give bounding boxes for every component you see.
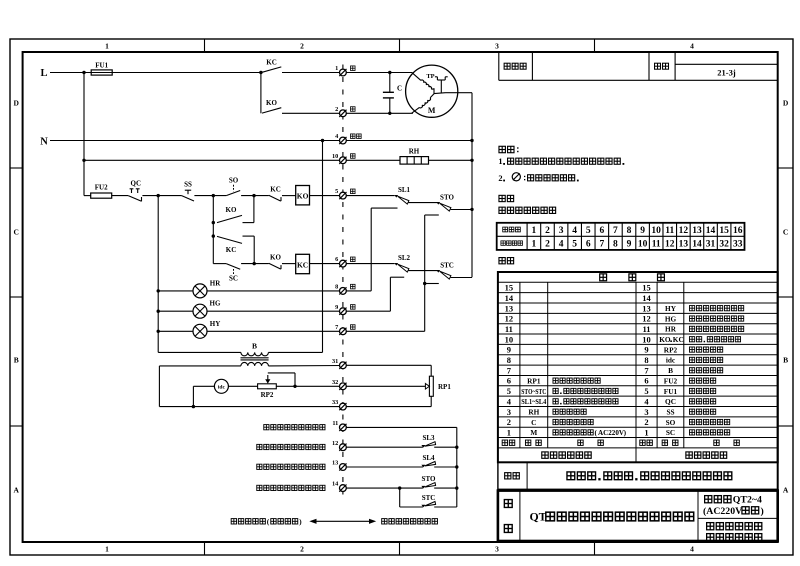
svg-text:4: 4 bbox=[559, 239, 564, 249]
svg-text:9: 9 bbox=[627, 239, 632, 249]
svg-text:33: 33 bbox=[733, 239, 743, 249]
svg-text:QC: QC bbox=[665, 397, 676, 406]
svg-text:9: 9 bbox=[507, 345, 511, 355]
svg-text:10: 10 bbox=[651, 226, 661, 236]
svg-text:14: 14 bbox=[692, 239, 702, 249]
svg-text:SS: SS bbox=[666, 407, 674, 416]
svg-text:SL2: SL2 bbox=[398, 254, 411, 262]
svg-text:AC220V: AC220V bbox=[598, 429, 625, 437]
svg-text:2: 2 bbox=[300, 42, 304, 51]
svg-text:9: 9 bbox=[644, 345, 648, 355]
svg-text:SS: SS bbox=[184, 181, 192, 189]
svg-text:6: 6 bbox=[644, 376, 648, 386]
svg-text:3: 3 bbox=[644, 407, 648, 417]
svg-text:11: 11 bbox=[642, 324, 650, 334]
svg-text:C: C bbox=[531, 418, 536, 427]
svg-text:13: 13 bbox=[679, 239, 689, 249]
svg-text:D: D bbox=[783, 99, 789, 108]
svg-text:13: 13 bbox=[332, 460, 338, 467]
svg-text:STC: STC bbox=[440, 261, 454, 269]
svg-text:12: 12 bbox=[679, 226, 689, 236]
svg-text:A: A bbox=[783, 486, 789, 495]
svg-text:3: 3 bbox=[495, 42, 499, 51]
svg-text:FU1: FU1 bbox=[95, 62, 108, 70]
svg-text:11: 11 bbox=[652, 239, 661, 249]
svg-text:HG: HG bbox=[210, 300, 221, 308]
svg-text:KO: KO bbox=[270, 254, 281, 262]
svg-text:B: B bbox=[252, 342, 257, 351]
svg-text:5: 5 bbox=[644, 386, 648, 396]
svg-text:13: 13 bbox=[505, 303, 514, 313]
svg-text:STO: STO bbox=[422, 475, 436, 483]
svg-text:M: M bbox=[428, 106, 436, 115]
svg-text:2: 2 bbox=[498, 174, 502, 183]
svg-text:KO: KO bbox=[226, 206, 237, 214]
svg-text:L: L bbox=[40, 68, 47, 79]
svg-text:14: 14 bbox=[332, 481, 339, 488]
svg-text:12: 12 bbox=[332, 440, 338, 447]
svg-text:RH: RH bbox=[528, 407, 539, 416]
svg-text:idc: idc bbox=[666, 356, 676, 365]
svg-text:KC: KC bbox=[226, 246, 237, 254]
svg-text:11: 11 bbox=[332, 420, 338, 427]
svg-text:N: N bbox=[40, 137, 48, 148]
svg-text:1: 1 bbox=[498, 157, 502, 166]
svg-text:11: 11 bbox=[505, 324, 513, 334]
svg-text:1: 1 bbox=[105, 545, 109, 554]
svg-text:2: 2 bbox=[300, 545, 304, 554]
svg-text:SO: SO bbox=[229, 177, 239, 185]
svg-text:8: 8 bbox=[613, 239, 618, 249]
svg-text:1: 1 bbox=[532, 239, 537, 249]
svg-text:10: 10 bbox=[642, 334, 651, 344]
svg-text:6: 6 bbox=[507, 376, 511, 386]
svg-text:7: 7 bbox=[507, 365, 512, 375]
svg-text:KC: KC bbox=[266, 59, 277, 67]
svg-text:5: 5 bbox=[572, 239, 577, 249]
svg-text:3: 3 bbox=[559, 226, 564, 236]
svg-text:B: B bbox=[668, 366, 673, 375]
svg-text:KO: KO bbox=[266, 99, 277, 107]
svg-text:1: 1 bbox=[532, 226, 537, 236]
svg-text:RP2: RP2 bbox=[261, 391, 274, 399]
svg-text:KC: KC bbox=[270, 186, 281, 194]
svg-text:QT: QT bbox=[530, 510, 547, 524]
svg-text:33: 33 bbox=[332, 399, 338, 406]
svg-text:10: 10 bbox=[638, 239, 648, 249]
svg-text:7: 7 bbox=[599, 239, 604, 249]
svg-text:4: 4 bbox=[690, 545, 694, 554]
svg-text:32: 32 bbox=[719, 239, 729, 249]
svg-text:SL1~SL4: SL1~SL4 bbox=[521, 397, 546, 406]
svg-text:RH: RH bbox=[409, 148, 420, 156]
svg-text:RP2: RP2 bbox=[664, 345, 678, 354]
svg-text:B: B bbox=[783, 356, 788, 365]
svg-text:KC: KC bbox=[297, 260, 308, 269]
svg-text:SL3: SL3 bbox=[422, 434, 435, 442]
svg-text:31: 31 bbox=[332, 358, 338, 365]
svg-text:14: 14 bbox=[642, 293, 651, 303]
svg-text:FU2: FU2 bbox=[95, 184, 108, 192]
svg-text:15: 15 bbox=[505, 283, 514, 293]
svg-text:31: 31 bbox=[706, 239, 716, 249]
svg-text:4: 4 bbox=[572, 226, 577, 236]
svg-text:M: M bbox=[530, 428, 537, 437]
svg-text:HG: HG bbox=[665, 314, 677, 323]
svg-text:8: 8 bbox=[644, 355, 648, 365]
svg-text:HR: HR bbox=[665, 325, 677, 334]
svg-text:6: 6 bbox=[599, 226, 604, 236]
svg-text:B: B bbox=[14, 356, 19, 365]
svg-text:RP1: RP1 bbox=[438, 383, 451, 391]
svg-text:6: 6 bbox=[335, 256, 338, 263]
svg-text:7: 7 bbox=[613, 226, 618, 236]
svg-text:idc: idc bbox=[218, 385, 226, 391]
svg-text:2: 2 bbox=[545, 226, 550, 236]
svg-text:2: 2 bbox=[335, 106, 338, 113]
svg-text:KO: KO bbox=[297, 192, 309, 201]
svg-text:2: 2 bbox=[644, 417, 648, 427]
svg-text:5: 5 bbox=[586, 226, 591, 236]
svg-text:1: 1 bbox=[644, 427, 648, 437]
svg-text:3: 3 bbox=[507, 407, 511, 417]
svg-text:C: C bbox=[783, 228, 788, 237]
svg-text:4: 4 bbox=[690, 42, 694, 51]
svg-text:RP1: RP1 bbox=[527, 376, 541, 385]
svg-text:1: 1 bbox=[335, 65, 338, 72]
svg-text:8: 8 bbox=[335, 284, 338, 291]
svg-text:32: 32 bbox=[332, 379, 338, 386]
svg-text:D: D bbox=[13, 99, 19, 108]
svg-text:KC: KC bbox=[673, 335, 684, 344]
svg-text:2: 2 bbox=[507, 417, 511, 427]
svg-text:6: 6 bbox=[586, 239, 591, 249]
svg-text:C: C bbox=[13, 228, 18, 237]
svg-text:13: 13 bbox=[642, 303, 651, 313]
svg-text:HY: HY bbox=[210, 320, 221, 328]
svg-text:SL1: SL1 bbox=[398, 186, 411, 194]
svg-text:12: 12 bbox=[665, 239, 675, 249]
svg-text:14: 14 bbox=[505, 293, 514, 303]
svg-text:8: 8 bbox=[507, 355, 511, 365]
svg-text:A: A bbox=[13, 486, 19, 495]
svg-text:SC: SC bbox=[229, 274, 238, 282]
svg-text:(AC220V: (AC220V bbox=[703, 506, 742, 517]
svg-text:14: 14 bbox=[706, 226, 716, 236]
svg-text:15: 15 bbox=[642, 283, 651, 293]
svg-text:QT2~4: QT2~4 bbox=[733, 495, 762, 506]
svg-text:2: 2 bbox=[545, 239, 550, 249]
svg-text:10: 10 bbox=[332, 153, 338, 160]
svg-text:QC: QC bbox=[131, 179, 142, 187]
svg-text:TP: TP bbox=[426, 73, 434, 80]
svg-text:SC: SC bbox=[666, 428, 675, 437]
svg-text:16: 16 bbox=[733, 226, 743, 236]
svg-text:15: 15 bbox=[719, 226, 729, 236]
svg-text:FU2: FU2 bbox=[664, 376, 678, 385]
svg-text:FU1: FU1 bbox=[664, 387, 678, 396]
svg-text:4: 4 bbox=[507, 396, 512, 406]
svg-text:1: 1 bbox=[507, 427, 511, 437]
svg-text:10: 10 bbox=[505, 334, 514, 344]
svg-text:HR: HR bbox=[210, 279, 221, 287]
svg-text:13: 13 bbox=[692, 226, 702, 236]
svg-text:7: 7 bbox=[335, 324, 338, 331]
svg-text:3: 3 bbox=[495, 545, 499, 554]
svg-text:KO: KO bbox=[659, 335, 671, 344]
svg-text:1: 1 bbox=[105, 42, 109, 51]
svg-text:STO~STC: STO~STC bbox=[521, 387, 546, 396]
svg-text:STC: STC bbox=[422, 494, 436, 502]
svg-text:C: C bbox=[397, 85, 402, 93]
svg-text:9: 9 bbox=[335, 304, 338, 311]
svg-text:5: 5 bbox=[507, 386, 511, 396]
svg-text:SL4: SL4 bbox=[422, 454, 435, 462]
svg-text:STO: STO bbox=[440, 193, 454, 201]
svg-text:12: 12 bbox=[505, 314, 514, 324]
svg-text:8: 8 bbox=[627, 226, 632, 236]
svg-text:9: 9 bbox=[640, 226, 645, 236]
svg-text:5: 5 bbox=[335, 188, 338, 195]
svg-text:21-3j: 21-3j bbox=[717, 68, 736, 78]
svg-text:): ) bbox=[761, 506, 764, 517]
svg-text:11: 11 bbox=[665, 226, 674, 236]
svg-text:12: 12 bbox=[642, 314, 651, 324]
svg-text:SO: SO bbox=[666, 418, 676, 427]
svg-text:HY: HY bbox=[665, 304, 677, 313]
